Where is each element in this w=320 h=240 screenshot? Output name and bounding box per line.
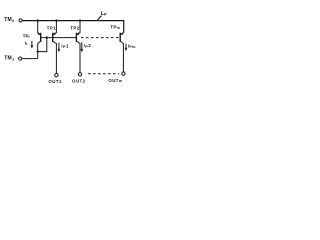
svg-text:TPm: TPm (110, 24, 120, 30)
terminal TM2 (19, 19, 22, 22)
transistor TPm emitter wire (120, 33, 123, 35)
node base bus junction (46, 36, 48, 38)
svg-text:TPr: TPr (23, 33, 31, 39)
transistor TP2 emitter wire (77, 21, 80, 35)
emitter arrow TPm (121, 32, 124, 35)
current arrow IP1 (58, 43, 60, 50)
emitter arrow TP1 (53, 32, 56, 35)
arrowhead IPm (125, 48, 128, 51)
transistor TP1 base bar (52, 33, 54, 42)
terminal OUTm (122, 72, 125, 75)
wire common base bus (dashed continuation) (81, 37, 120, 39)
svg-text:LP: LP (101, 11, 107, 17)
svg-text:TM2: TM2 (4, 17, 15, 23)
leader line Lp (97, 16, 101, 21)
terminal TM1 (19, 57, 22, 60)
node TPr collector junction (37, 50, 39, 52)
transistor TPr base bar (40, 33, 42, 42)
svg-text:TP2: TP2 (70, 25, 80, 30)
emitter arrow TP2 (77, 32, 80, 35)
transistor TP1 emitter wire (53, 21, 57, 35)
svg-text:OUT1: OUT1 (48, 79, 62, 84)
current arrow IP2 (81, 42, 83, 49)
node rail-TP2 (79, 19, 81, 21)
terminal OUT2 (78, 73, 81, 76)
current arrow IPm (125, 44, 127, 49)
wire TM1 to TPr collector (22, 58, 38, 60)
wire dashed outputs continuation (88, 73, 119, 75)
svg-text:IP1: IP1 (61, 43, 69, 49)
node rail-TP1 (55, 19, 57, 21)
transistor TPr emitter wire (38, 21, 41, 35)
arrowhead Ir (31, 45, 34, 49)
transistor TP2 collector wire (77, 41, 80, 72)
supply line Lp (top rail) (22, 21, 123, 33)
svg-text:IPm: IPm (128, 44, 136, 50)
arrowhead IP1 (58, 49, 61, 53)
svg-text:OUTm: OUTm (108, 78, 122, 83)
terminal OUT1 (55, 74, 58, 77)
transistor TPm base bar (119, 33, 121, 42)
svg-text:IP2: IP2 (84, 43, 92, 49)
wire common base bus (solid) (41, 37, 77, 39)
arrowhead IP2 (81, 49, 84, 53)
transistor TP1 collector wire (53, 41, 57, 73)
svg-text:TP1: TP1 (47, 25, 57, 30)
svg-text:OUT2: OUT2 (72, 78, 86, 83)
emitter arrow TPr (38, 32, 41, 35)
transistor TPr collector wire (38, 41, 41, 58)
wire collector-to-base feedback (38, 38, 47, 52)
transistor TPm collector wire (120, 41, 123, 71)
transistor TP2 base bar (75, 33, 77, 42)
current arrow Ir (31, 41, 33, 46)
svg-text:Ir: Ir (25, 40, 28, 46)
svg-text:TM1: TM1 (4, 55, 15, 61)
node rail-TPr (37, 19, 39, 21)
